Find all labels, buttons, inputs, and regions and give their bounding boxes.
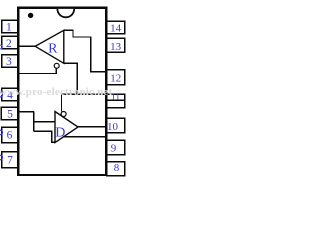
svg-text:6: 6	[7, 130, 13, 142]
node fragment pin6 edge	[0, 130, 3, 134]
wire B/enable: R bottom corner down	[64, 63, 78, 94]
pin 10 box	[107, 118, 125, 133]
pin 13 box	[107, 38, 125, 52]
pin 1 dot	[28, 13, 33, 18]
wire RE: R bubble to pin 3 side	[19, 68, 56, 74]
svg-text:3: 3	[6, 56, 12, 68]
wire enable down to D bubble	[61, 94, 63, 111]
svg-text:2: 2	[6, 38, 12, 50]
wire enable horizontal to pin 11	[62, 93, 107, 95]
svg-text:R: R	[48, 41, 58, 56]
pin 6 box	[2, 127, 18, 143]
notch	[57, 9, 74, 17]
D enable bubble	[61, 112, 66, 117]
node fragment pin4 edge	[0, 93, 3, 97]
wire pin5 stub	[19, 111, 34, 113]
wire vertical branch	[33, 112, 35, 132]
pin 4 box	[2, 88, 18, 101]
wire DI into D	[34, 121, 55, 123]
svg-text:9: 9	[111, 143, 117, 155]
R enable bubble	[54, 63, 59, 68]
wire lower branch	[34, 131, 55, 142]
pin 9 box	[107, 140, 125, 155]
svg-text:13: 13	[110, 41, 122, 53]
pin 5 box	[1, 107, 18, 119]
svg-text:12: 12	[110, 73, 121, 85]
wire Y: D lower edge to pin 9 side	[64, 136, 106, 138]
svg-text:8: 8	[114, 162, 120, 174]
wire Z: D apex to pin 10	[78, 126, 106, 128]
svg-text:7: 7	[7, 155, 13, 167]
op-amp D (driver)	[55, 112, 78, 143]
svg-text:10: 10	[107, 121, 119, 133]
wire RO: R apex to pin 2	[19, 45, 36, 47]
wire A: R top corner to pin 12	[64, 30, 106, 72]
pin 7 box	[2, 152, 18, 168]
op-amp R (receiver)	[35, 30, 64, 63]
node fragment pin7 edge	[0, 155, 3, 159]
svg-text:1: 1	[6, 22, 12, 34]
pin 2 box	[2, 36, 18, 49]
IC body U1	[18, 8, 106, 175]
svg-text:www.pro-electronic.net: www.pro-electronic.net	[0, 86, 112, 98]
svg-text:14: 14	[110, 23, 122, 35]
svg-text:D: D	[55, 126, 65, 141]
svg-text:5: 5	[7, 109, 13, 121]
pin 14 box	[107, 21, 125, 33]
pin 1 box	[2, 20, 18, 32]
pin 11 inner line	[107, 99, 124, 101]
pin 3 box	[2, 55, 18, 67]
pin 12 box	[107, 70, 125, 85]
pin 8 box	[107, 162, 125, 176]
node fragment pin2 edge	[0, 45, 2, 49]
pin 11 box	[107, 94, 125, 108]
